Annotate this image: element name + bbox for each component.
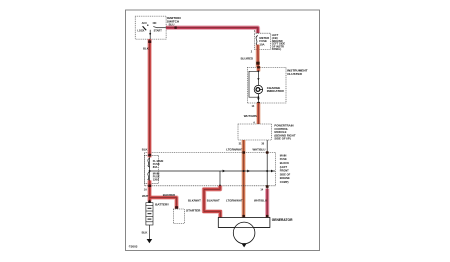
bus red from fuses to battery [147,180,152,201]
svg-text:COMP): COMP) [280,180,289,184]
svg-text:GENERATOR: GENERATOR [272,218,293,222]
wire from switch contact down to box bottom [149,30,151,39]
wire BLU/RED highlighted red-orange from fuse to instrument cluster [256,45,260,67]
svg-text:120A: 120A [153,178,159,182]
svg-text:PANEL): PANEL) [272,47,282,51]
svg-text:BLK/WHT: BLK/WHT [188,199,201,203]
ignition switch contact arm left [143,26,147,30]
main red battery bus from ignition switch down to fuses [147,39,152,157]
generator B+ wire BLK/WHT highlighted red [219,185,221,187]
svg-text:CLUSTER: CLUSTER [287,72,302,76]
battery feed line to the right [150,170,275,172]
svg-text:(LEFT: (LEFT [280,165,288,169]
svg-text:BLK: BLK [142,148,148,152]
junction arrow top of loop [257,78,259,80]
svg-text:WHT/BLU: WHT/BLU [254,199,267,203]
bus wire thin through fuse area [149,157,151,180]
svg-text:BLU/RED: BLU/RED [241,57,253,61]
svg-text:ACC: ACC [142,22,148,25]
wire BLU highlighted crimson from ignition switch to meter fuse [166,28,258,33]
svg-text:LTGRN/WHT: LTGRN/WHT [226,147,243,151]
svg-text:START: START [154,29,163,32]
connector tick on bus at fuse block [148,154,151,156]
ignition switch pivot dot [147,25,148,26]
connector tick starter wire end [175,206,178,209]
main fuse block dashed box [144,152,275,185]
wire LTGRN/WHT highlighted orange PCM to generator L [241,140,245,218]
svg-text:BLK/RED: BLK/RED [163,193,175,197]
battery junction dot [148,200,151,203]
svg-text:FRONT: FRONT [280,169,289,173]
connector tick generator L terminal [242,215,245,217]
charge indicator bulb L1 [254,85,262,93]
svg-text:WHT/GRN: WHT/GRN [244,114,257,118]
connector tick at cluster bottom [257,102,260,104]
wire from switch contact to box edge [157,27,166,29]
svg-text:BLK/WHT: BLK/WHT [207,199,220,203]
instrument cluster dashed box [247,67,286,103]
connector tick LTGRN/WHT at box edge [242,151,245,153]
generator G1 terminal box [218,218,270,228]
wire WHT/BLU highlighted crimson to generator S [265,189,269,218]
left J/B dashed box around meter fuse [254,33,270,49]
ground symbol generator [242,244,247,248]
connector tick WHT/BLU at box edge [266,151,269,153]
wire through bulb [257,71,259,103]
svg-text:LOCK: LOCK [137,29,144,32]
generator body circle [233,222,255,244]
resistor branch loop inside cluster [249,71,258,97]
svg-text:BLOCK: BLOCK [280,161,289,165]
fusible link FL1 symbol [148,158,150,167]
wire WHT/BLU thin from PCM pin 30 [266,140,268,189]
connector tick at box bottom on bus [148,185,151,187]
wire WHT/GRN highlighted red-orange cluster to PCM [256,103,260,124]
svg-text:BATTERY: BATTERY [155,202,169,206]
starter dashed box [173,209,184,224]
inner fuse dashed box [144,155,158,183]
connector tick generator S terminal [266,215,269,217]
svg-text:STARTER: STARTER [186,209,201,213]
ground symbol battery [147,239,153,243]
starter branch wire BLK/RED highlighted red [150,198,177,209]
generator terminal box redraw bottom edge [218,226,270,228]
junction arrow bottom of loop [257,98,259,100]
ignition switch SW1 dashed box [135,16,166,39]
diagram frame [126,10,320,251]
svg-text:FUSE: FUSE [280,157,287,161]
feed arrow 1 [223,170,226,173]
svg-text:SIDE OF: SIDE OF [280,172,291,176]
junction dot feed and LTGRN/WHT wire [243,170,245,172]
connector square below switch [148,40,151,43]
junction dot on switch feed [149,33,151,35]
svg-text:SIDE OF I/P): SIDE OF I/P) [274,137,290,141]
meter fuse F1 symbol [256,36,258,47]
main fuse F2 symbol [148,172,150,181]
svg-text:MAIN: MAIN [280,153,287,157]
junction dot feed and WHT/BLU wire [266,170,268,172]
svg-text:80A: 80A [153,165,158,169]
feed arrow 2 [247,170,250,173]
junction dot bottom of loop [258,96,260,98]
connector tick WHT/BLU at dashed line [266,185,269,188]
svg-text:10A: 10A [259,43,264,47]
junction dot top of loop [258,70,260,72]
feed arrow 3 [271,170,274,173]
connector tick at cluster top [257,66,260,68]
cluster entry wire highlighted orange [256,66,260,71]
svg-text:ON: ON [153,22,157,25]
svg-text:ENGINE: ENGINE [280,176,290,180]
in-line connector on BLU/RED wire [256,62,259,65]
svg-text:INDICATOR: INDICATOR [267,89,285,93]
ignition switch contact arm right [153,27,157,28]
battery negative wire [148,225,150,239]
battery B1 [146,203,153,225]
connector dot on BLU wire [174,26,176,28]
svg-text:WHT/BLU: WHT/BLU [253,147,266,151]
powertrain control module PCM dashed box [238,124,271,140]
drop wire to generator B+ [219,171,221,186]
svg-text:BLK: BLK [143,46,149,50]
svg-text:WHT: WHT [142,194,149,198]
junction dot feed line [149,170,151,172]
svg-text:LTGRN/WHT: LTGRN/WHT [226,199,243,203]
svg-text:©2003: ©2003 [129,245,138,249]
svg-text:1A: 1A [144,189,147,192]
svg-text:BLK: BLK [142,231,148,235]
